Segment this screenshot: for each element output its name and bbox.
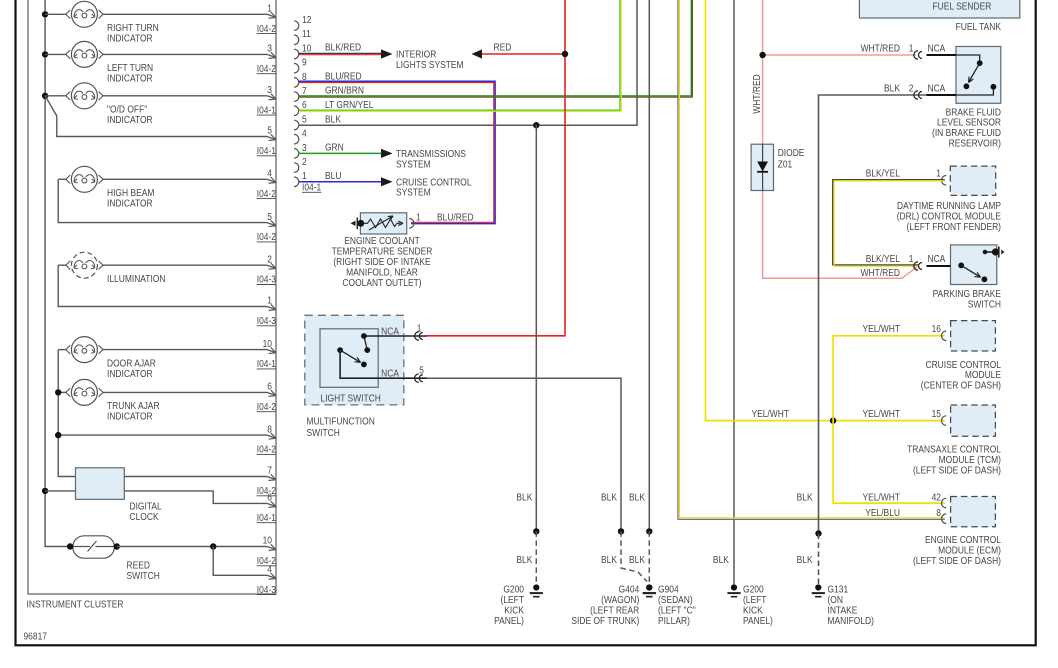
svg-text:PANEL): PANEL) [743,615,773,626]
svg-text:BLK: BLK [629,492,646,503]
svg-text:9: 9 [302,57,307,68]
svg-text:WHT/RED: WHT/RED [861,43,901,54]
svg-text:2: 2 [302,156,307,167]
svg-text:I04-2: I04-2 [257,444,276,455]
svg-text:4: 4 [267,168,272,179]
svg-text:ENGINE COOLANT: ENGINE COOLANT [344,235,420,246]
svg-text:(IN BRAKE FLUID: (IN BRAKE FLUID [932,128,1001,139]
svg-text:INDICATOR: INDICATOR [107,368,153,379]
svg-text:10: 10 [263,338,272,349]
svg-text:RED: RED [493,42,511,53]
svg-text:NCA: NCA [927,43,946,54]
svg-text:SWITCH: SWITCH [968,299,1001,310]
svg-text:SYSTEM: SYSTEM [396,187,431,198]
svg-text:1: 1 [417,323,422,334]
svg-text:LEVEL SENSOR: LEVEL SENSOR [937,117,1001,128]
svg-text:FUEL TANK: FUEL TANK [956,21,1002,32]
svg-text:3: 3 [267,84,272,95]
svg-text:YEL/WHT: YEL/WHT [862,408,900,419]
svg-text:BLU/RED: BLU/RED [325,71,362,82]
svg-text:3: 3 [302,142,307,153]
svg-text:INDICATOR: INDICATOR [107,411,153,422]
svg-text:DOOR AJAR: DOOR AJAR [107,358,156,369]
svg-text:1: 1 [267,3,272,14]
svg-text:I04-2: I04-2 [257,23,276,34]
svg-text:1: 1 [909,43,914,54]
svg-text:WHT/RED: WHT/RED [751,74,762,114]
svg-text:BLK/YEL: BLK/YEL [866,168,900,179]
svg-text:MANIFOLD): MANIFOLD) [828,615,874,626]
svg-text:LT GRN/YEL: LT GRN/YEL [325,99,373,110]
svg-text:I04-3: I04-3 [257,274,276,285]
svg-text:7: 7 [302,85,307,96]
svg-text:G131: G131 [828,584,849,595]
svg-text:DIODE: DIODE [778,147,805,158]
svg-text:PILLAR): PILLAR) [658,615,690,626]
svg-text:SYSTEM: SYSTEM [396,159,431,170]
svg-text:LIGHT SWITCH: LIGHT SWITCH [321,393,381,404]
svg-text:(LEFT: (LEFT [743,594,767,605]
svg-text:PARKING BRAKE: PARKING BRAKE [933,288,1001,299]
svg-text:5: 5 [302,114,307,125]
svg-text:BLK: BLK [797,554,814,565]
svg-text:LIGHTS SYSTEM: LIGHTS SYSTEM [396,59,464,70]
svg-text:5: 5 [267,125,272,136]
svg-text:(ON: (ON [828,594,843,605]
svg-text:BLK: BLK [629,554,646,565]
svg-text:DIGITAL: DIGITAL [129,501,161,512]
svg-text:I04-1: I04-1 [302,182,321,193]
svg-text:I04-3: I04-3 [257,315,276,326]
svg-text:4: 4 [267,564,272,575]
svg-text:BLK: BLK [325,114,342,125]
svg-text:Z01: Z01 [778,159,793,170]
svg-text:6: 6 [302,100,307,111]
svg-text:I04-2: I04-2 [257,555,276,566]
svg-text:RESERVOIR): RESERVOIR) [949,138,1001,149]
svg-text:WHT/RED: WHT/RED [861,267,901,278]
svg-text:I04-2: I04-2 [257,231,276,242]
svg-text:HIGH BEAM: HIGH BEAM [107,187,154,198]
svg-text:FUEL SENDER: FUEL SENDER [932,1,991,12]
svg-text:I04-2: I04-2 [257,63,276,74]
svg-text:(LEFT REAR: (LEFT REAR [590,605,639,616]
svg-text:BLK: BLK [797,492,814,503]
svg-text:SIDE OF TRUNK): SIDE OF TRUNK) [571,615,639,626]
svg-text:I04-1: I04-1 [257,145,276,156]
svg-text:BLK: BLK [516,554,533,565]
svg-text:NCA: NCA [927,83,946,94]
svg-text:BLU: BLU [325,170,341,181]
svg-text:INDICATOR: INDICATOR [107,198,153,209]
svg-text:TRUNK AJAR: TRUNK AJAR [107,401,160,412]
svg-text:11: 11 [302,29,311,40]
svg-text:CLOCK: CLOCK [129,511,159,522]
svg-text:INDICATOR: INDICATOR [107,114,153,125]
svg-text:NCA: NCA [927,254,946,265]
svg-text:BLK: BLK [713,554,730,565]
svg-text:LEFT TURN: LEFT TURN [107,63,153,74]
svg-text:BLK: BLK [516,492,533,503]
svg-text:I04-2: I04-2 [257,188,276,199]
svg-text:I04-1: I04-1 [257,105,276,116]
svg-text:(SEDAN): (SEDAN) [658,594,693,605]
svg-text:8: 8 [302,71,307,82]
svg-text:BLU/RED: BLU/RED [437,212,474,223]
svg-text:G404: G404 [619,584,640,595]
svg-text:INSTRUMENT CLUSTER: INSTRUMENT CLUSTER [26,599,123,610]
svg-text:GRN: GRN [325,142,344,153]
svg-text:"O/D OFF": "O/D OFF" [107,104,147,115]
svg-text:5: 5 [419,365,424,376]
svg-text:(LEFT SIDE OF DASH): (LEFT SIDE OF DASH) [913,555,1001,566]
svg-text:3: 3 [267,43,272,54]
svg-text:INTERIOR: INTERIOR [396,49,437,60]
svg-text:(LEFT "C": (LEFT "C" [658,605,696,616]
svg-text:10: 10 [263,535,272,546]
svg-text:INTAKE: INTAKE [828,605,858,616]
svg-text:YEL/BLU: YEL/BLU [865,508,900,519]
svg-text:REED: REED [126,560,150,571]
svg-text:MODULE (ECM): MODULE (ECM) [938,545,1001,556]
svg-text:I04-2: I04-2 [257,485,276,496]
svg-text:YEL/WHT: YEL/WHT [862,492,900,503]
svg-text:(CENTER OF DASH): (CENTER OF DASH) [921,380,1001,391]
svg-text:YEL/WHT: YEL/WHT [751,408,789,419]
svg-text:2: 2 [909,83,914,94]
svg-text:BLK: BLK [601,554,618,565]
svg-text:1: 1 [416,212,421,223]
svg-text:6: 6 [267,381,272,392]
svg-text:1: 1 [267,295,272,306]
svg-text:BRAKE FLUID: BRAKE FLUID [946,107,1002,118]
svg-text:6: 6 [267,492,272,503]
svg-text:INDICATOR: INDICATOR [107,73,153,84]
svg-text:G904: G904 [658,584,679,595]
svg-text:COOLANT OUTLET): COOLANT OUTLET) [342,277,421,288]
svg-text:BLK/YEL: BLK/YEL [866,254,900,265]
svg-text:(RIGHT SIDE OF INTAKE: (RIGHT SIDE OF INTAKE [333,256,430,267]
svg-text:I04-1: I04-1 [257,512,276,523]
svg-text:5: 5 [267,211,272,222]
svg-text:CRUISE CONTROL: CRUISE CONTROL [396,177,472,188]
svg-text:1: 1 [302,171,307,182]
svg-text:INDICATOR: INDICATOR [107,33,153,44]
svg-text:PANEL): PANEL) [494,615,524,626]
svg-text:TRANSMISSIONS: TRANSMISSIONS [396,148,466,159]
svg-text:1: 1 [936,168,941,179]
svg-text:KICK: KICK [504,605,524,616]
svg-text:NCA: NCA [381,368,400,379]
svg-text:TEMPERATURE SENDER: TEMPERATURE SENDER [332,246,433,257]
svg-text:1: 1 [909,254,914,265]
svg-text:(DRL) CONTROL MODULE: (DRL) CONTROL MODULE [897,211,1001,222]
svg-text:16: 16 [932,324,941,335]
svg-text:NCA: NCA [381,326,400,337]
svg-text:(WAGON): (WAGON) [601,594,639,605]
svg-text:BLK/RED: BLK/RED [325,42,361,53]
svg-text:MULTIFUNCTION: MULTIFUNCTION [306,416,374,427]
svg-text:10: 10 [302,43,311,54]
svg-text:(LEFT SIDE OF DASH): (LEFT SIDE OF DASH) [913,465,1001,476]
svg-text:MODULE: MODULE [965,370,1001,381]
svg-text:MODULE (TCM): MODULE (TCM) [939,454,1001,465]
svg-text:96817: 96817 [23,631,46,642]
svg-text:BLK: BLK [601,492,618,503]
svg-text:(LEFT: (LEFT [501,594,525,605]
svg-text:GRN/BRN: GRN/BRN [325,85,364,96]
svg-text:CRUISE CONTROL: CRUISE CONTROL [925,359,1001,370]
svg-text:KICK: KICK [743,605,763,616]
svg-text:I04-2: I04-2 [257,401,276,412]
svg-text:G200: G200 [743,584,764,595]
svg-text:I04-3: I04-3 [257,584,276,595]
svg-text:ILLUMINATION: ILLUMINATION [107,273,165,284]
svg-text:SWITCH: SWITCH [126,570,159,581]
svg-text:15: 15 [932,408,941,419]
svg-text:8: 8 [267,424,272,435]
svg-text:4: 4 [302,128,307,139]
svg-text:SWITCH: SWITCH [306,427,339,438]
svg-text:DAYTIME RUNNING LAMP: DAYTIME RUNNING LAMP [897,200,1001,211]
svg-text:TRANSAXLE CONTROL: TRANSAXLE CONTROL [907,444,1001,455]
svg-text:YEL/WHT: YEL/WHT [862,324,900,335]
svg-text:I04-1: I04-1 [257,358,276,369]
svg-text:7: 7 [267,465,272,476]
svg-text:12: 12 [302,14,311,25]
svg-text:2: 2 [267,254,272,265]
svg-text:ENGINE CONTROL: ENGINE CONTROL [925,534,1001,545]
svg-text:42: 42 [932,492,941,503]
svg-text:G200: G200 [503,584,524,595]
svg-text:8: 8 [936,508,941,519]
svg-text:RIGHT TURN: RIGHT TURN [107,22,159,33]
svg-text:(LEFT FRONT FENDER): (LEFT FRONT FENDER) [907,221,1001,232]
svg-text:MANIFOLD, NEAR: MANIFOLD, NEAR [346,267,418,278]
svg-text:BLK: BLK [884,83,901,94]
